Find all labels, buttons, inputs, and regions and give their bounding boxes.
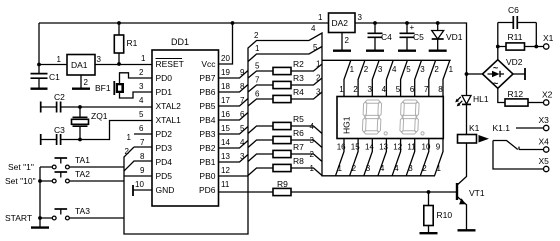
svg-text:17: 17 [221,96,230,105]
svg-text:K1.1: K1.1 [493,123,511,133]
svg-text:6: 6 [255,90,260,99]
display HG1 digit 1 [362,100,381,134]
svg-text:VD1: VD1 [446,32,463,42]
wire BF1 bottom to DD1 PD1 [120,92,153,98]
node TA3 common junction [38,216,42,220]
svg-text:4: 4 [311,24,316,33]
svg-text:1: 1 [127,133,132,142]
svg-text:3: 3 [97,55,102,64]
svg-text:HG1: HG1 [342,116,352,134]
wire HG1 bottom pin 13 [378,139,387,176]
terminal X4 [544,147,549,152]
svg-text:2: 2 [139,68,144,77]
svg-text:5: 5 [255,62,260,71]
node R1/DA1 output junction [117,62,121,66]
svg-text:X5: X5 [539,156,550,166]
node C1/DA1 junction [37,63,41,67]
svg-text:16: 16 [221,110,230,119]
svg-text:C1: C1 [49,72,60,82]
svg-text:START: START [5,213,32,223]
crystal ZQ1 [79,107,81,140]
svg-text:4: 4 [392,65,397,74]
wire HG1 top fan line [322,59,451,61]
pushbutton TA1 [40,166,124,168]
svg-text:7: 7 [424,85,429,94]
svg-text:HL1: HL1 [473,94,489,104]
svg-text:2: 2 [353,85,358,94]
svg-text:19: 19 [221,68,230,77]
terminal X2 [544,100,549,105]
svg-text:PD2: PD2 [156,129,173,139]
svg-text:6: 6 [139,124,144,133]
svg-text:7: 7 [255,76,260,85]
wire DD1 pin13 to bus tagged 3 [219,155,249,163]
wire DA1 pin1 input [39,64,67,66]
svg-text:2: 2 [364,65,369,74]
ground VT1 emitter [458,229,476,231]
svg-text:9: 9 [240,68,245,77]
op-amp regulator DA1 [67,55,95,76]
resistor R2 [248,64,322,78]
wire DD1 pin9 to bus [124,175,152,177]
ground DA1 pin2 [72,87,90,89]
wire C3 node to DD1 XTAL1 [80,121,152,140]
svg-text:C5: C5 [413,32,424,42]
wire HG1 top pin 7 [429,60,436,96]
wire left rail drop to DA1 input [38,23,40,65]
svg-text:3: 3 [358,13,363,22]
svg-text:GND: GND [156,185,175,195]
svg-text:Vcc: Vcc [201,59,216,69]
node R10 junction [427,190,431,194]
svg-text:12: 12 [393,143,402,152]
svg-text:PD1: PD1 [156,87,173,97]
LED HL1 [462,96,471,105]
wire DD1 pin15 to bus tagged 5 [219,127,249,135]
svg-text:TA1: TA1 [75,155,90,165]
svg-text:PD6: PD6 [199,185,216,195]
op-amp U DD1 microcontroller body [152,50,219,206]
wire K1 to VT1 collector [458,143,467,185]
svg-text:C6: C6 [508,5,519,15]
wire DD1 pin19 to bus tagged 9 [219,71,249,79]
svg-text:R9: R9 [277,179,288,189]
wire DA1 pin2 to ground [80,75,82,88]
wire DD1 pin20 Vcc to rail [219,23,233,64]
wire DD1 pin16 to bus tagged 6 [219,113,249,121]
svg-text:11: 11 [407,143,416,152]
resistor R3 [248,78,322,92]
svg-text:14: 14 [365,143,374,152]
svg-text:10: 10 [422,143,431,152]
node Vcc rail junction [231,21,235,25]
svg-text:4: 4 [310,122,315,131]
wire K1.1 armature [493,141,518,150]
wire DD1 pin17 to bus tagged 7 [219,99,249,107]
svg-text:20: 20 [221,54,230,63]
svg-text:13: 13 [379,143,388,152]
wire HG1 top pin 4 [386,60,393,96]
wire HG1 bottom pin 12 [392,139,401,176]
capacitor C3 [40,134,42,145]
wire HG1 top pin 2 [358,60,365,96]
capacitor C1 [38,65,40,89]
resistor R4 [248,92,322,106]
svg-text:Set "1": Set "1" [8,162,34,172]
svg-text:4: 4 [380,164,385,173]
svg-text:PB3: PB3 [199,129,215,139]
resistor R5 [248,126,322,134]
transistor VT1 [456,183,458,200]
bridge rectifier VD2 [483,60,514,89]
svg-text:14: 14 [221,138,230,147]
svg-text:6: 6 [410,85,415,94]
svg-text:3: 3 [420,65,425,74]
svg-text:4: 4 [394,164,399,173]
wire VD2 top vertex up to C6/R11 [497,23,499,60]
svg-text:PB4: PB4 [199,115,215,125]
wire DD1 pin12 to bus [219,175,249,177]
svg-text:PD0: PD0 [156,73,173,83]
svg-text:C2: C2 [54,92,65,102]
terminal X1 [544,44,549,49]
svg-text:C3: C3 [54,125,65,135]
svg-text:PB6: PB6 [199,87,215,97]
svg-text:4: 4 [382,85,387,94]
svg-text:PD5: PD5 [156,171,173,181]
svg-text:15: 15 [221,124,230,133]
wire X3 contact [516,127,543,129]
wire tagged 2 exit to DD1 pin8 [124,161,152,171]
capacitor C6 [498,22,537,24]
svg-text:2: 2 [352,164,357,173]
wire top supply rail right segment with corner down to VD2 column [355,23,467,74]
ground VD1 [429,50,447,52]
svg-text:5: 5 [406,65,411,74]
svg-text:~: ~ [493,63,498,73]
node TA2 common junction [38,179,42,183]
wire tagged 1/5 link [248,47,322,62]
capacitor C5 polarized [406,23,408,50]
capacitor C4 [374,23,376,50]
relay coil K1 [458,135,477,144]
svg-text:VT1: VT1 [469,188,485,198]
wire HG1 bottom pin 15 [350,139,359,176]
pushbutton TA2 [40,180,124,182]
svg-text:XTAL1: XTAL1 [156,115,182,125]
svg-text:1: 1 [338,164,343,173]
resistor R8 [248,168,322,176]
svg-text:5: 5 [396,85,401,94]
wire HG1 top pin 6 [415,60,422,96]
piezo sounder BF1 [113,81,115,95]
svg-text:+: + [410,23,415,32]
terminal X5 [544,166,549,171]
svg-text:R6: R6 [293,128,304,138]
svg-text:3: 3 [408,164,413,173]
wire X4 contact [519,147,543,150]
svg-text:ZQ1: ZQ1 [91,111,108,121]
svg-text:2: 2 [422,164,427,173]
svg-text:15: 15 [351,143,360,152]
svg-text:R11: R11 [508,32,523,42]
svg-text:PB7: PB7 [199,73,215,83]
wire HG1 bottom pin 16 [336,139,345,176]
svg-text:5: 5 [313,43,318,52]
svg-text:X4: X4 [539,137,550,147]
node C2/ZQ1/XTAL2 junction [78,105,82,109]
svg-text:5: 5 [139,110,144,119]
wire rail junction down to HL1 [466,74,468,96]
svg-text:1: 1 [339,85,344,94]
resistor R7 [248,154,322,162]
svg-text:DA2: DA2 [332,18,349,28]
svg-text:2: 2 [345,36,350,45]
svg-text:3: 3 [240,152,245,161]
ground buttons common [39,218,41,227]
wire DA2 pin2 ground [341,33,343,51]
wire VD2 left vertex link [467,73,483,75]
wire top supply rail left segment [39,22,329,24]
svg-text:2: 2 [125,147,130,156]
wire DD1 pin10 GND lead with terminal bar [133,189,152,191]
svg-text:18: 18 [221,82,230,91]
wire HG1 bottom pin 14 [364,139,373,176]
wire HG1 bottom pin 11 [406,139,415,176]
wire C6/R11 right link [535,23,537,47]
svg-text:PB2: PB2 [199,143,215,153]
svg-text:2: 2 [254,31,259,40]
svg-text:1: 1 [141,54,146,63]
svg-text:RESET: RESET [156,59,184,69]
svg-text:R1: R1 [127,38,138,48]
wire HG1 top pin 1 [344,60,351,96]
svg-text:3: 3 [368,85,373,94]
svg-text:R4: R4 [293,87,304,97]
svg-text:VD2: VD2 [506,57,523,67]
wire HG1 top pin 5 [401,60,408,96]
resistor R12 [505,99,528,106]
display HG1 digit 2 [400,100,419,134]
svg-text:X1: X1 [543,33,554,43]
ground C4 [366,50,384,52]
svg-text:Set "10": Set "10" [5,176,36,186]
svg-text:R12: R12 [508,89,524,99]
node rail/R1 junction [117,21,121,25]
svg-text:DA1: DA1 [71,60,88,70]
svg-text:R3: R3 [293,73,304,83]
svg-text:1: 1 [57,55,62,64]
svg-text:X2: X2 [542,90,553,100]
svg-text:C4: C4 [381,32,392,42]
svg-text:9: 9 [140,166,145,175]
svg-text:4: 4 [240,138,245,147]
svg-text:TA3: TA3 [75,206,90,216]
wire HG1 bottom pin 9 [435,139,444,176]
wire HG1 top pin 3 [372,60,379,96]
svg-text:16: 16 [337,143,346,152]
RESET overline [156,58,183,60]
wire HG1 bottom pin 10 [420,139,429,176]
svg-text:PD3: PD3 [156,143,173,153]
svg-text:XTAL2: XTAL2 [156,101,182,111]
svg-text:1: 1 [316,60,321,69]
svg-text:R7: R7 [293,142,304,152]
wire HG1 top pin 8 [443,60,450,96]
svg-text:1: 1 [318,13,323,22]
svg-text:X3: X3 [539,115,550,125]
wire DD1 pin18 to bus tagged 8 [219,85,249,93]
svg-text:10: 10 [135,180,144,189]
svg-text:3: 3 [378,65,383,74]
svg-text:3: 3 [366,164,371,173]
pushbutton TA3 [40,217,124,219]
svg-text:PB1: PB1 [199,157,215,167]
svg-text:3: 3 [139,82,144,91]
wire tagged 1 exit to DD1 pin7 [134,146,152,148]
resistor R1 [118,23,120,64]
diode VD1 [437,23,439,50]
svg-text:4: 4 [139,96,144,105]
svg-text:1: 1 [350,65,355,74]
wire VD2 bottom vertex to R12 [498,88,505,102]
terminal X3 [544,125,549,130]
resistor R6 [248,140,322,148]
wire BF1 top to DD1 PD0 [120,73,153,83]
ground C1 [31,87,48,89]
svg-text:3: 3 [316,88,321,97]
svg-text:9: 9 [436,143,441,152]
svg-text:1: 1 [310,164,315,173]
svg-text:DD1: DD1 [171,37,189,47]
ground DA2 [333,50,351,52]
op-amp regulator DA2 [329,13,356,33]
wire group-link bus main run [124,33,435,234]
resistor R9 [219,191,457,193]
svg-text:R8: R8 [293,156,304,166]
svg-text:TA2: TA2 [75,169,90,179]
node C3/ZQ1 junction [78,138,82,142]
ground C5 [398,50,416,52]
svg-text:2: 2 [316,74,321,83]
svg-text:12: 12 [221,166,230,175]
svg-text:1: 1 [437,164,442,173]
svg-text:8: 8 [140,152,145,161]
capacitor C2 [40,102,42,113]
svg-text:8: 8 [240,82,245,91]
svg-text:R5: R5 [293,114,304,124]
svg-text:6: 6 [240,110,245,119]
wire DA1 pin3 output to DD1 RESET [95,64,152,66]
svg-text:PD4: PD4 [156,157,173,167]
svg-text:5: 5 [240,124,245,133]
svg-text:BF1: BF1 [95,83,111,93]
node rail/VD2/HL1 junction [465,72,469,76]
ground R10 [420,232,438,234]
svg-text:2: 2 [310,150,315,159]
svg-text:3: 3 [310,136,315,145]
svg-text:~: ~ [493,79,498,89]
wire K1.1 common to X5 [493,141,543,170]
svg-text:R2: R2 [293,59,304,69]
wire buttons common left rail [39,167,41,218]
wire VD2 right vertex to terminal bar [513,73,525,75]
svg-text:PB0: PB0 [199,171,215,181]
svg-text:1: 1 [255,44,260,53]
resistor R11 [498,46,544,48]
svg-text:2: 2 [84,78,89,87]
svg-text:13: 13 [221,152,230,161]
wire DD1 pin6 PD2 stub [134,133,152,135]
svg-text:7: 7 [240,96,245,105]
svg-text:R10: R10 [437,210,453,220]
svg-text:2: 2 [434,65,439,74]
svg-text:7: 7 [140,138,145,147]
svg-text:11: 11 [221,180,230,189]
svg-text:PB5: PB5 [199,101,215,111]
svg-text:8: 8 [438,85,443,94]
display HG1 body [337,97,443,139]
resistor R10 [428,192,430,233]
svg-text:K1: K1 [469,123,480,133]
svg-text:1: 1 [449,65,454,74]
wire DD1 pin14 to bus tagged 4 [219,141,249,149]
wire HL1 to K1 [466,104,468,134]
